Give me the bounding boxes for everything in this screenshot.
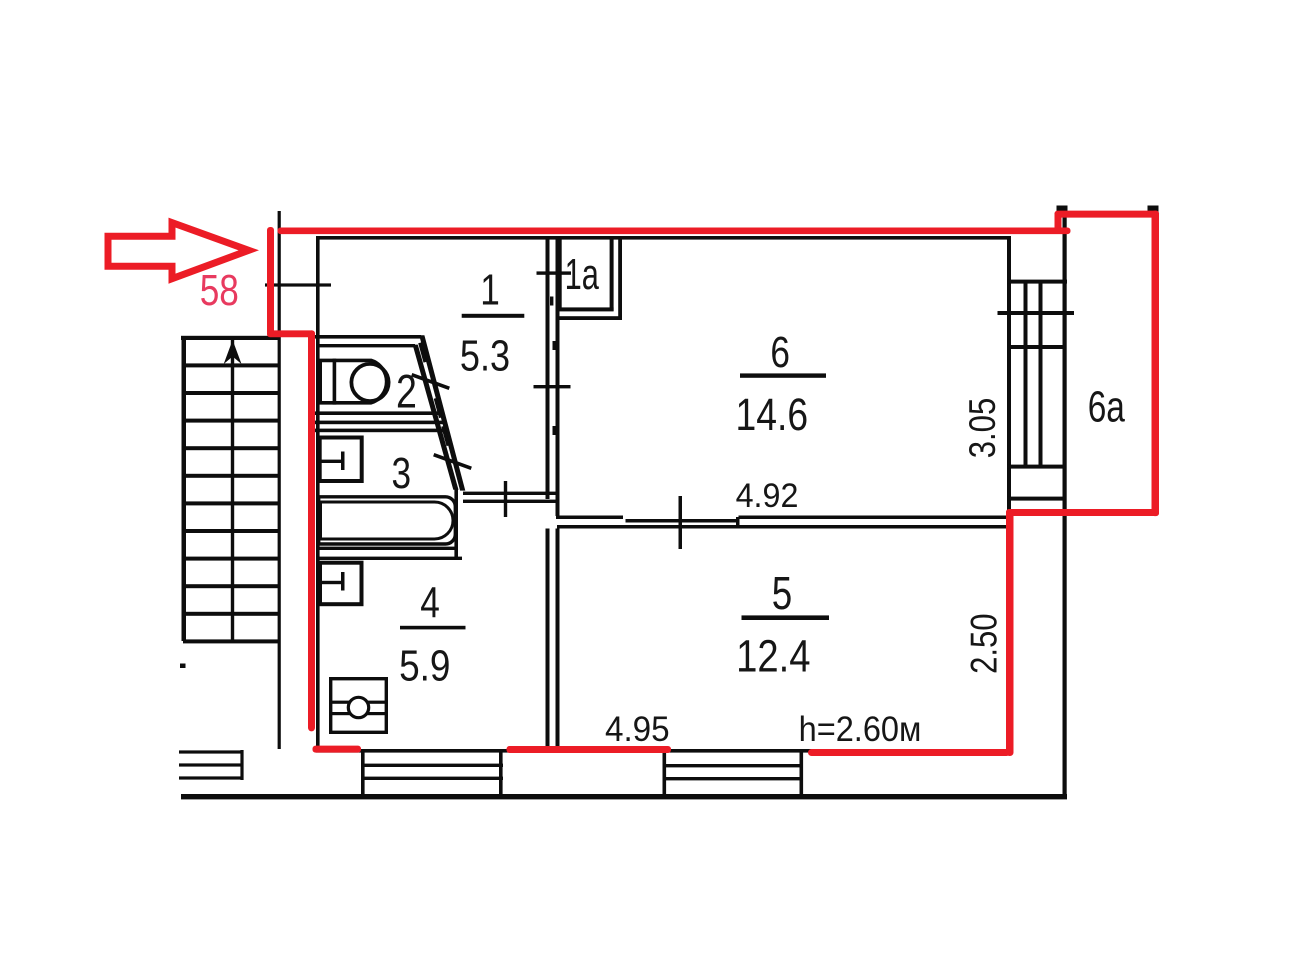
staircase up arrow xyxy=(224,340,242,364)
wall1-6 tick mid xyxy=(534,385,571,388)
room5 right wall xyxy=(1008,515,1012,752)
stove circle xyxy=(348,697,368,717)
room5 top wall segA3 xyxy=(739,516,1009,520)
toilet fixture cistern divider xyxy=(333,359,337,405)
svg-text:58: 58 xyxy=(200,266,239,315)
closet 1a outer L vertical xyxy=(618,239,622,320)
closet 1a left wall line2 xyxy=(556,239,560,516)
bathtub outer xyxy=(319,497,456,544)
svg-text:3: 3 xyxy=(392,449,412,498)
closet 1a stub mid xyxy=(550,297,553,306)
red annotation group xyxy=(108,211,1159,756)
svg-text:6: 6 xyxy=(770,328,790,377)
corridor door wall line2 xyxy=(463,500,557,503)
svg-text:4.95: 4.95 xyxy=(605,710,670,749)
closet 1a tick top xyxy=(537,271,572,274)
wall slant inner xyxy=(413,345,459,490)
bathroom top wall xyxy=(315,429,445,433)
svg-text:4.92: 4.92 xyxy=(736,477,799,515)
red top long line xyxy=(278,228,1071,235)
svg-text:5: 5 xyxy=(772,567,792,619)
bathroom washbasin box xyxy=(320,438,362,482)
kitchen-room5 wall line2 xyxy=(556,529,560,750)
kitchen washbasin tap xyxy=(318,581,344,584)
slant tick 5 long crossing xyxy=(433,453,472,470)
balcony window glazing v2 xyxy=(1039,281,1043,468)
red room5 right vertical xyxy=(1006,509,1014,756)
staircase steps xyxy=(183,363,278,643)
red left top vertical xyxy=(267,227,274,335)
svg-text:h=2.60м: h=2.60м xyxy=(799,710,922,749)
room5 window frame right xyxy=(800,750,804,796)
svg-text:3.05: 3.05 xyxy=(963,398,1004,458)
room5 top wall tick xyxy=(679,496,683,549)
wall slant outer xyxy=(419,335,465,490)
svg-text:14.6: 14.6 xyxy=(735,388,808,439)
fraction bar room5 xyxy=(742,615,830,620)
balcony window bottom line xyxy=(1007,465,1063,469)
stove line2 xyxy=(329,712,388,715)
bathroom washbasin tap xyxy=(318,460,344,463)
stair window line2 xyxy=(179,763,244,766)
toilet room inner top wall xyxy=(318,344,415,347)
wall top exterior xyxy=(316,236,1011,240)
building right edge wall xyxy=(1063,209,1067,799)
fraction bar room1 xyxy=(462,314,525,318)
room5 top wall lower line xyxy=(557,525,1008,529)
fraction bar room6 xyxy=(740,373,826,377)
bottom exterior wall xyxy=(181,794,1067,799)
svg-text:2.50: 2.50 xyxy=(964,613,1005,673)
slant stub tick 4 xyxy=(441,426,450,446)
svg-text:1: 1 xyxy=(480,266,500,315)
svg-text:4: 4 xyxy=(420,579,440,628)
staircase top wall xyxy=(181,336,280,340)
slant tick 2 long crossing xyxy=(411,373,450,390)
stair window line3 xyxy=(179,776,244,779)
balcony window sill line xyxy=(1007,497,1063,501)
toilet fixture bowl xyxy=(320,360,386,402)
balcony outline corner nub right xyxy=(1148,206,1159,213)
balcony window glazing v1 xyxy=(1024,281,1028,468)
red balcony right vertical xyxy=(1152,211,1160,516)
bathroom bottom wall line1 xyxy=(316,547,456,550)
red bottom middle segment xyxy=(507,746,672,753)
balcony window tick xyxy=(998,311,1075,315)
stair window line1 xyxy=(179,750,244,753)
svg-text:12.4: 12.4 xyxy=(736,630,810,681)
room5 window glazing1 xyxy=(663,764,803,767)
room5 top wall segA1 xyxy=(556,516,623,520)
wall apartment left vertical xyxy=(316,236,320,752)
bathroom bottom wall line2 xyxy=(316,557,462,560)
bathtub inner xyxy=(321,502,454,539)
corridor door wall line1 xyxy=(463,492,557,495)
slant stub tick 3 xyxy=(434,398,443,418)
red left long vertical xyxy=(308,330,315,731)
balcony window top line xyxy=(1007,280,1067,284)
closet 1a box bottom wall xyxy=(559,307,614,311)
stair window frame right xyxy=(240,750,243,780)
bath right vertical wall xyxy=(454,489,458,560)
red arrow entry xyxy=(108,223,249,279)
slant stub tick 1 xyxy=(418,342,427,362)
room5 window glazing2 xyxy=(663,777,803,780)
kitchen washbasin box xyxy=(320,563,362,605)
toilet room outer top wall xyxy=(315,335,421,339)
closet 1a own left wall xyxy=(559,239,562,309)
svg-text:5.9: 5.9 xyxy=(399,641,450,691)
closet 1a outer L horizontal xyxy=(557,316,622,320)
red bottom right segment xyxy=(808,749,1010,756)
red balcony stub xyxy=(1055,211,1062,234)
svg-text:6a: 6a xyxy=(1088,383,1125,431)
room5 top wall segA2 offset xyxy=(626,519,738,523)
closet 1a left wall line1 xyxy=(546,239,550,499)
balcony window mid line xyxy=(1007,345,1063,349)
corridor door tick xyxy=(504,481,507,517)
kitchen window frame left xyxy=(361,750,365,796)
fraction bar room4 xyxy=(400,626,466,630)
room5 top wall stub xyxy=(736,517,740,525)
red balcony bottom xyxy=(1006,509,1159,516)
red corner horizontal xyxy=(267,330,315,337)
kitchen window glazing2 xyxy=(361,777,503,780)
stove line1 xyxy=(329,701,388,704)
room6 right wall xyxy=(1007,236,1011,517)
kitchen window frame right xyxy=(499,750,503,796)
closet 1a box right wall xyxy=(610,239,614,311)
svg-text:2: 2 xyxy=(396,366,417,419)
svg-text:1a: 1a xyxy=(565,251,600,300)
wall entry outer vertical xyxy=(278,211,281,749)
stove box xyxy=(331,679,387,733)
red bottom left segment xyxy=(313,746,362,753)
toilet bottom wall line2 xyxy=(315,421,443,425)
svg-text:5.3: 5.3 xyxy=(460,331,510,380)
bottom interior wall xyxy=(316,749,1009,753)
wall1-6 stub b xyxy=(553,426,556,435)
tick entry door xyxy=(265,283,331,286)
balcony outline corner nub left xyxy=(1057,206,1068,213)
room5 window frame left xyxy=(663,750,667,796)
toilet fixture circle xyxy=(351,364,388,401)
staircase left wall xyxy=(182,336,187,641)
dot mark left xyxy=(180,664,186,669)
kitchen window glazing1 xyxy=(361,764,503,767)
staircase middle divider xyxy=(231,338,234,642)
kitchen-room5 wall line1 xyxy=(546,529,550,750)
red balcony top xyxy=(1055,211,1160,218)
wall1-6 stub a xyxy=(553,341,556,350)
toilet bottom wall line1 xyxy=(315,411,440,415)
